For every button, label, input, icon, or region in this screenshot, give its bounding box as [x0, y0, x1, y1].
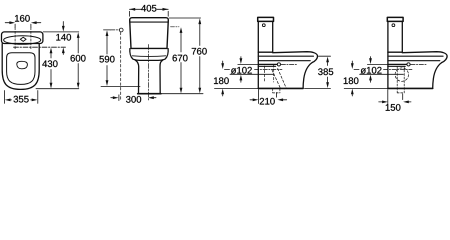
dimension 355: right arrow [32, 99, 38, 102]
view 4: hidden floor outlet below floor [397, 67, 404, 93]
view 2: seat underside chord line [132, 55, 165, 58]
dimension 160: extension ticks [15, 24, 31, 27]
dimension 180 v4: bottom arrow up [351, 89, 354, 95]
dimension 430: line lower segment with down arrow [50, 70, 52, 84]
label 210 [260, 98, 275, 105]
dimension 300: left arrow stub [111, 97, 115, 99]
label 385 [318, 68, 333, 75]
view 3: hidden floor outlet below floor [273, 89, 280, 93]
dimension phi102 v3: top arrow down [240, 58, 243, 64]
view 3: hidden trapway diagonals [272, 70, 280, 88]
view 3: floor extension left [215, 87, 259, 89]
label 160 [15, 15, 30, 22]
dimension 150: right arrow stub [408, 101, 412, 103]
view 4: rim top line [388, 55, 443, 57]
view 3: button circle [262, 24, 265, 27]
label 180 v4 [344, 77, 359, 84]
dimension 670: top arrow up [180, 27, 183, 33]
dimension 385: rim extension [319, 55, 331, 57]
view 3: bowl front curve [303, 63, 312, 89]
view 4: seat top and nose [402, 52, 447, 63]
label 300 [126, 96, 141, 103]
dimension 300: left extension tick [118, 95, 120, 101]
view 1: button width dashed extension left [14, 28, 16, 49]
view 4: button circle [392, 24, 395, 27]
dimension 405: left arrow [130, 8, 136, 11]
water supply: dashed vertical pipe line [120, 32, 122, 100]
dimension 160: line stubs [5, 22, 41, 24]
dimension 590: lower segment with down arrow [106, 66, 108, 82]
dimension 760: top extension line [169, 17, 200, 19]
dimension 430: line upper segment with up arrow [50, 48, 53, 54]
view 4: floor line [388, 87, 433, 89]
view 4: cistern body side [388, 21, 402, 52]
view 4: back vertical [387, 52, 389, 88]
dimension 760: lower segment with down arrow [199, 57, 201, 89]
dimension phi102 v4: pipe bottom extension [360, 73, 404, 75]
label o102 v4 [361, 67, 382, 74]
view 3: hidden outlet dashes [264, 66, 266, 81]
dimension phi102 v3: pipe bottom extension [230, 73, 274, 75]
view 3: floor line [258, 87, 303, 89]
dimension 670: lower segment with down arrow [180, 63, 182, 89]
dimension phi102 v3: pipe top extension [238, 63, 258, 65]
label 760 [192, 48, 207, 55]
label 430 [42, 60, 57, 67]
view 4: floor extension left [344, 87, 388, 89]
view 3: outlet stub top [258, 64, 277, 66]
view 3: cistern lid side [258, 17, 274, 21]
dimension 150: extension lines [388, 90, 403, 105]
view 3: cistern body side [258, 21, 272, 52]
label 405 [141, 5, 156, 12]
dimension 600: top arrow up [77, 32, 80, 38]
label 590 [99, 56, 114, 63]
dimension 385: lower segment with down arrow [327, 77, 329, 83]
dimension 210: extension lines [258, 90, 276, 104]
dimension 760: top arrow up [198, 18, 201, 24]
view 2: cistern lid joint line [130, 21, 168, 23]
view 1: seat outer outline [2, 44, 39, 90]
label o102 v3 [231, 67, 252, 74]
view 2: bowl-to-pedestal left curve [135, 60, 139, 93]
view 1: cistern top-view body [2, 32, 43, 44]
view 2: bowl-to-pedestal right curve [160, 60, 163, 93]
dimension 140: top extension line from cistern [43, 31, 79, 33]
label 140 [56, 34, 71, 41]
label 600 [71, 55, 86, 62]
view 4: outlet stub top [388, 64, 407, 66]
view 2: base floor line [138, 93, 161, 95]
view 3: floor extension right [305, 87, 331, 89]
view 1: seat lid inner outline [7, 53, 35, 85]
dimension 405: right arrow [163, 8, 169, 11]
label 180 v3 [214, 77, 229, 84]
dimension 355: extension lines [4, 91, 37, 104]
dimension 300: right arrow stub [153, 97, 157, 99]
view 1: water spot blob [17, 61, 28, 69]
dimension phi102 v4: bottom arrow up [369, 75, 372, 81]
view 2: cistern front [130, 18, 169, 49]
view 3: rim bottom line [258, 60, 310, 62]
view 2: centerline dash-dot [148, 45, 150, 101]
label 355 [14, 96, 29, 103]
view 2: seat block front [130, 49, 168, 61]
view 3: back vertical [257, 52, 259, 88]
water supply: circle marker [119, 28, 123, 32]
label 670 [173, 55, 188, 62]
dimension 140: bottom arrow pointing up [62, 47, 65, 53]
view 1: cistern lid ellipse [4, 36, 41, 45]
view 3: seat top and nose [273, 52, 318, 63]
dimension 140: top arrow pointing down [62, 26, 65, 32]
dimension 150: left arrow stub [379, 101, 383, 103]
label 150 [386, 104, 401, 111]
view 1: flush button diamond [20, 37, 26, 41]
view 4: hidden trapway dashed circle [395, 68, 408, 81]
water supply: dash-dot leader [111, 29, 120, 31]
dimension 180 v4: top arrow down [351, 63, 354, 69]
view 1: button width dashed extension right [30, 28, 32, 49]
dimension phi102 v3: bottom arrow up [240, 75, 243, 81]
view 4: cistern lid side [387, 17, 403, 21]
dimension 355: left arrow [5, 99, 11, 102]
dimension 590: top tick [104, 29, 111, 31]
dimension 405: extension ticks [130, 11, 169, 16]
view 1: bottom extension line (seat front) [36, 88, 79, 90]
dimension 180 v3: top arrow down [221, 63, 224, 69]
dimension 600: lower segment with down arrow [77, 64, 79, 84]
dimension 210: left arrow stub [250, 99, 254, 101]
view 2: floor extension right [162, 93, 204, 95]
view 4: rim bottom line [388, 60, 440, 62]
view 3: outlet axis dash-dot [255, 68, 283, 70]
dimension 405: line segments [130, 8, 169, 10]
view 3: rim top line [258, 55, 313, 57]
dimension phi102 v4: top arrow down [369, 58, 372, 64]
dimension 160: left arrow [9, 21, 15, 24]
dimension 590: top arrow up [106, 30, 109, 36]
dimension 670: water line dash-dot stub [171, 26, 180, 28]
dimension 180 v3: bottom arrow up [221, 89, 224, 95]
view 4: outlet axis dash-dot [384, 68, 413, 70]
dimension 385: top arrow up [326, 57, 329, 63]
dimension 210: right arrow stub [283, 99, 287, 101]
view 4: bowl front curve [433, 63, 442, 89]
dimension 590: bottom reference line [101, 85, 140, 87]
dimension phi102 v4: pipe top extension [367, 63, 388, 65]
view 1: seat hinge dash-dot line [14, 46, 66, 48]
dimension 160: right arrow [31, 21, 37, 24]
